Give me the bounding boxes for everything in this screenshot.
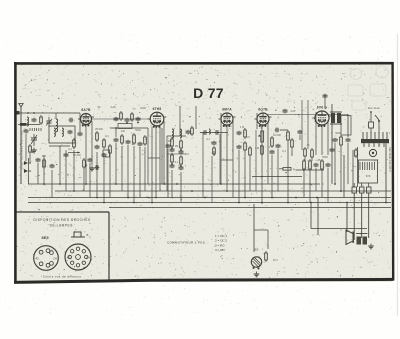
resistor R51 xyxy=(171,153,174,164)
svg-text:4O: 4O xyxy=(35,257,38,261)
resistor R32 xyxy=(83,158,86,169)
wire xyxy=(327,120,329,155)
wire xyxy=(291,149,293,156)
wire xyxy=(347,228,367,230)
wire xyxy=(347,114,349,137)
wire xyxy=(307,100,309,149)
wire link row y132 xyxy=(200,132,228,134)
wire xyxy=(37,163,39,184)
wire xyxy=(370,112,372,116)
svg-text:Exc.Veux: Exc.Veux xyxy=(368,106,380,110)
svg-text:6E5: 6E5 xyxy=(254,248,259,252)
tube V2 6TH8 IF amplifier xyxy=(148,107,167,128)
wire xyxy=(73,150,75,191)
resistor R2 cathode xyxy=(43,158,46,169)
wire xyxy=(315,112,317,155)
capacitor C41 xyxy=(125,118,130,123)
node oh2 xyxy=(287,176,289,178)
resistor R15b xyxy=(304,147,307,158)
capacitor C6b xyxy=(95,165,100,170)
wire xyxy=(309,171,311,203)
wire second h xyxy=(18,124,40,126)
wire xyxy=(79,125,81,127)
capacitor C23 grid xyxy=(323,94,328,99)
wire mains b xyxy=(378,128,380,134)
resistor R4 screen xyxy=(96,131,99,142)
svg-text:5000: 5000 xyxy=(335,132,341,135)
wire xyxy=(155,127,157,198)
wire xyxy=(96,152,98,198)
wire xyxy=(159,127,161,191)
wire xyxy=(315,168,317,191)
node d2 xyxy=(180,149,182,151)
wire bus line 1 xyxy=(28,183,320,185)
capacitor C12a cathode xyxy=(166,144,171,149)
svg-text:6TH8: 6TH8 xyxy=(153,107,162,111)
wire xyxy=(299,135,301,140)
wire heater bus xyxy=(109,207,391,209)
capacitor C55 xyxy=(203,130,208,135)
wire xyxy=(109,155,111,198)
capacitor C3b xyxy=(64,153,69,158)
capacitor C31 xyxy=(36,158,41,163)
node j41 xyxy=(126,122,128,124)
resistor R53 xyxy=(180,155,183,166)
wire xyxy=(151,127,153,203)
resistor R17 xyxy=(340,135,343,147)
resistor R31 xyxy=(355,148,358,158)
tone capacitor box xyxy=(341,116,351,136)
resistor R50 xyxy=(171,137,174,148)
wire xyxy=(59,146,61,184)
svg-text:5000: 5000 xyxy=(135,129,141,132)
capacitor C40 xyxy=(114,117,119,122)
wire xyxy=(85,125,87,184)
svg-text:D 77: D 77 xyxy=(193,85,224,101)
wire col left xyxy=(161,128,163,184)
capacitor C22 xyxy=(346,138,351,143)
svg-text:6V6 G: 6V6 G xyxy=(317,106,328,110)
wire xyxy=(238,150,240,203)
svg-text:120: 120 xyxy=(121,130,126,133)
wire xyxy=(321,171,323,198)
wire osc link xyxy=(62,112,80,114)
coil L2 wave band xyxy=(56,119,58,132)
capacitor C30 xyxy=(24,129,29,134)
resistor R52 xyxy=(180,139,183,150)
wire speaker field xyxy=(346,203,348,233)
svg-text:2000: 2000 xyxy=(140,107,146,110)
wire xyxy=(83,169,85,191)
wire speaker field b xyxy=(310,203,312,229)
svg-text:4-25: 4-25 xyxy=(110,106,116,109)
wire mid h xyxy=(167,135,186,137)
coil L4 xyxy=(62,128,63,136)
wire xyxy=(226,126,228,191)
svg-text:6V6: 6V6 xyxy=(366,175,371,178)
capacitor C12 xyxy=(212,141,217,146)
capacitor C7 padder xyxy=(114,138,119,143)
wire xyxy=(267,121,269,184)
resistor R3 grid leak xyxy=(73,138,76,149)
ground magic eye xyxy=(254,272,260,277)
svg-text:DE LAMPES.: DE LAMPES. xyxy=(50,224,75,228)
capacitor C32 xyxy=(330,148,335,153)
svg-text:25.000: 25.000 xyxy=(95,128,103,131)
coil T1 primary xyxy=(172,129,174,138)
capacitor C4b xyxy=(69,118,74,123)
band switch S1 contacts xyxy=(24,161,31,173)
resistor R8c xyxy=(191,126,194,136)
svg-text:0,5: 0,5 xyxy=(246,136,250,139)
svg-text:· · · · · · · · ·: · · · · · · · · · xyxy=(344,250,359,254)
wire bus line 3 xyxy=(28,197,391,199)
output transformer T3 xyxy=(356,234,368,245)
svg-text:M 1: M 1 xyxy=(273,258,278,262)
wire xyxy=(334,143,336,184)
node oh1 xyxy=(261,176,263,178)
filter choke box xyxy=(359,160,378,183)
wire xyxy=(301,100,303,150)
capacitor C18 coupling xyxy=(275,128,280,133)
resistor R6 xyxy=(121,134,124,145)
resistor R33 xyxy=(291,138,294,149)
variable capacitor CV1 xyxy=(31,134,37,146)
wire xyxy=(89,163,91,198)
wire extra v2 xyxy=(352,150,354,187)
node stub xyxy=(77,152,79,154)
AGC small rect xyxy=(103,150,110,157)
wire xyxy=(311,159,313,161)
svg-text:B: B xyxy=(87,233,89,237)
svg-text:2 = OC 2: 2 = OC 2 xyxy=(215,239,227,243)
ground speaker xyxy=(368,244,374,249)
wire top small xyxy=(115,128,117,137)
wire antenna top xyxy=(16,112,62,114)
oscillator coil box xyxy=(49,126,75,143)
wire xyxy=(232,121,234,198)
resistor R11 xyxy=(261,144,264,156)
wire stub y152 xyxy=(68,152,80,154)
svg-text:5000: 5000 xyxy=(322,156,328,159)
node mains xyxy=(370,111,372,113)
wire mains a xyxy=(370,128,372,134)
svg-text:0,1: 0,1 xyxy=(105,135,109,138)
svg-text:6A7B: 6A7B xyxy=(81,108,91,112)
socket key octal xyxy=(71,232,89,237)
wire xyxy=(29,154,31,163)
wire xyxy=(79,113,81,132)
switch S2 mains xyxy=(375,115,380,128)
electrolytic capacitor CE2 xyxy=(360,183,365,193)
wire xyxy=(55,113,57,119)
svg-text:6E5: 6E5 xyxy=(41,235,49,240)
wire xyxy=(166,136,168,191)
wire xyxy=(340,147,342,191)
speaker LS1 xyxy=(346,230,353,245)
capacitor C33 xyxy=(88,158,93,163)
node d1 xyxy=(171,147,173,149)
capacitor C20 xyxy=(326,163,331,168)
wire xyxy=(49,145,70,147)
wire xyxy=(304,158,306,161)
wire xyxy=(25,134,27,161)
choke winding xyxy=(360,162,374,170)
wire xyxy=(163,121,165,184)
capacitor C14 xyxy=(237,145,242,150)
svg-text:300: 300 xyxy=(42,155,47,158)
wire xyxy=(180,172,182,203)
wire xyxy=(213,151,215,156)
antenna terminal xyxy=(16,104,23,115)
svg-text:DISPOSITION DES BROCHES: DISPOSITION DES BROCHES xyxy=(33,218,90,222)
tube V5 6V6 G output xyxy=(313,106,332,127)
svg-text:4 = GO: 4 = GO xyxy=(215,248,225,252)
capacitor C8 xyxy=(126,140,131,145)
wire mid h2 xyxy=(167,153,186,155)
wire xyxy=(303,171,305,198)
svg-text:50.000: 50.000 xyxy=(73,154,81,157)
capacitor C13 xyxy=(237,131,242,136)
wire xyxy=(133,146,135,203)
capacitor C34 xyxy=(298,130,303,135)
wire bus line 2 xyxy=(55,190,391,192)
wire xyxy=(255,130,257,191)
tube V1 6A7B converter xyxy=(78,108,94,126)
svg-text:1 M: 1 M xyxy=(240,126,244,129)
output coupling cluster xyxy=(330,112,342,124)
wire speaker top link xyxy=(311,228,347,230)
wire xyxy=(353,193,355,240)
svg-text:0,5: 0,5 xyxy=(185,153,189,156)
resistor R7 xyxy=(133,133,136,145)
resistor R14 xyxy=(303,159,306,171)
wire xyxy=(144,147,146,191)
wire extra v1 xyxy=(343,155,345,198)
resistor R13 xyxy=(287,130,290,142)
node antenna junction xyxy=(33,112,35,114)
svg-text:0,1: 0,1 xyxy=(68,148,72,151)
blocking capacitor bar xyxy=(20,123,27,126)
capacitor C53 xyxy=(179,166,184,171)
resistor R12 xyxy=(271,136,274,148)
wire xyxy=(327,168,329,203)
wire plate line xyxy=(268,114,348,116)
wire xyxy=(219,134,221,184)
capacitor C2 padding xyxy=(68,130,73,135)
capacitor C9 xyxy=(138,142,143,147)
capacitor C6 xyxy=(102,153,107,158)
power transformer T2 xyxy=(361,132,389,147)
wire link y119 xyxy=(92,118,150,120)
wire xyxy=(103,158,105,203)
svg-text:1 M: 1 M xyxy=(255,147,259,150)
wire bus line 4 xyxy=(28,202,391,204)
svg-text:0,1: 0,1 xyxy=(282,150,286,153)
svg-text:1 = OC 1: 1 = OC 1 xyxy=(215,234,227,238)
electrolytic capacitor CE3 xyxy=(367,183,372,193)
svg-text:6M7A: 6M7A xyxy=(222,108,232,112)
volume potentiometer P1 xyxy=(258,131,264,142)
node j42 xyxy=(137,122,139,124)
capacitor C19 xyxy=(314,163,319,168)
capacitor C5 screen bypass xyxy=(95,145,100,150)
svg-text:Culots vus de dessous: Culots vus de dessous xyxy=(43,275,82,279)
capacitor C17 xyxy=(270,150,275,155)
node d4 xyxy=(180,165,182,167)
node j40 xyxy=(115,127,117,129)
wire xyxy=(139,147,141,198)
fuse F1 xyxy=(369,116,374,128)
wire xyxy=(287,142,289,203)
wire link h2 xyxy=(221,159,233,161)
wire xyxy=(357,147,359,187)
svg-text:· · · · · · ·: · · · · · · · xyxy=(344,264,355,268)
svg-text:0,1: 0,1 xyxy=(175,161,179,164)
wire xyxy=(220,113,222,184)
svg-text:CH: CH xyxy=(86,256,90,260)
ground V1 cathode xyxy=(89,166,95,171)
wire extra v3 xyxy=(331,104,333,184)
wire xyxy=(256,113,258,129)
coil L1b antenna ticks xyxy=(30,128,41,131)
coil T1 secondary xyxy=(180,129,182,138)
label switch positions xyxy=(215,234,227,252)
capacitor C17b xyxy=(276,144,281,149)
resistor R18 eye grid xyxy=(265,251,268,262)
wire xyxy=(202,133,204,198)
wire xyxy=(121,146,123,191)
resistor R10 xyxy=(244,141,247,152)
resistor R1 xyxy=(40,115,43,125)
svg-text:6Q7B: 6Q7B xyxy=(258,108,268,112)
svg-text:CH: CH xyxy=(53,257,57,261)
capacitor C1 xyxy=(32,118,37,123)
resistor R19 Pu horizontal xyxy=(279,168,291,171)
wire xyxy=(321,126,323,155)
svg-text:3 = PO: 3 = PO xyxy=(215,243,225,247)
capacitor C51 xyxy=(170,164,175,169)
wire xyxy=(20,112,22,114)
resistor R5b xyxy=(109,144,112,155)
resistor R40 xyxy=(120,111,123,121)
tube V3 6M7A IF amplifier xyxy=(219,108,236,127)
wire xyxy=(271,155,273,198)
resistor R7b xyxy=(144,135,147,146)
wire xyxy=(115,143,117,184)
wire xyxy=(65,150,67,191)
wire grid link xyxy=(110,127,148,129)
capacitor C52 xyxy=(179,150,184,155)
node d3 xyxy=(171,163,173,165)
wire drop x318 xyxy=(317,198,319,236)
wire xyxy=(211,156,213,203)
wire xyxy=(280,129,288,131)
rectifier tube V6 xyxy=(369,149,376,156)
wire xyxy=(127,145,129,198)
svg-text:CAP: CAP xyxy=(291,110,296,113)
resistor R30 xyxy=(29,144,32,154)
electrolytic capacitor CE1 xyxy=(352,183,357,193)
node bus junctions xyxy=(43,183,387,203)
wire to magic eye xyxy=(253,204,255,252)
node antenna junction 2 xyxy=(27,112,29,114)
wire T1 top entry 2 xyxy=(195,106,197,129)
tube V7 6E5 magic eye xyxy=(251,257,261,270)
resistor R16 xyxy=(321,159,324,171)
wire grid cap V5 xyxy=(324,94,326,109)
wire right edge drop xyxy=(385,143,387,202)
ground antenna section xyxy=(31,148,37,153)
wire xyxy=(43,155,45,184)
coil L3 xyxy=(54,128,55,136)
wire antenna lead xyxy=(20,113,22,184)
wire xyxy=(277,149,279,191)
resistor R9 xyxy=(244,128,247,139)
wire xyxy=(171,170,173,198)
capacitor C50 xyxy=(170,148,175,153)
capacitor C21 tone xyxy=(333,138,338,143)
capacitor C3 bypass xyxy=(50,164,55,169)
resistor R5 osc xyxy=(103,138,106,149)
trimmer capacitor CT1 xyxy=(46,117,52,127)
wire xyxy=(51,170,53,198)
capacitor C4 grid xyxy=(78,132,83,137)
wire output h line xyxy=(252,176,302,178)
wire eye branch drop xyxy=(267,230,269,249)
wire xyxy=(91,121,93,165)
wire switch drop xyxy=(28,158,30,184)
wire T1 top entry xyxy=(179,106,181,136)
coil L5 xyxy=(209,129,210,134)
wire xyxy=(261,126,263,204)
capacitor C42 xyxy=(136,117,141,122)
svg-text:10.000: 10.000 xyxy=(273,134,281,137)
tube socket diagram box xyxy=(17,212,110,281)
capacitor C56 xyxy=(215,130,220,135)
wire link h3 xyxy=(148,157,160,159)
tube socket 6-pin xyxy=(34,246,59,271)
resistor R15 xyxy=(309,159,312,171)
oscillator trimmer block xyxy=(118,124,132,129)
wire xyxy=(167,149,169,198)
wire xyxy=(147,128,149,184)
coil L1 antenna primary xyxy=(27,117,29,126)
svg-text:4O: 4O xyxy=(67,256,70,260)
wire xyxy=(244,152,246,198)
svg-text:1M: 1M xyxy=(175,145,178,148)
capacitor C15 AVC xyxy=(283,109,288,114)
svg-text:· · · · · · · ·: · · · · · · · · xyxy=(344,257,357,261)
svg-text:0,1: 0,1 xyxy=(206,138,210,141)
wire eye branch xyxy=(254,229,268,231)
resistor R15c xyxy=(311,148,314,159)
capacitor C10 trim xyxy=(186,130,191,135)
wire xyxy=(361,193,363,238)
wire xyxy=(249,157,251,191)
tube socket 8-pin octal xyxy=(65,244,91,270)
wire xyxy=(368,193,370,238)
svg-text:COMMUTATEUR 2 POS.: COMMUTATEUR 2 POS. xyxy=(167,241,206,245)
wire link h1 xyxy=(296,169,324,171)
label disposition heading xyxy=(33,218,90,228)
tube V4 6Q7B detector xyxy=(255,108,272,127)
resistor R41 xyxy=(131,112,134,122)
resistor R8 xyxy=(213,146,216,156)
resistor R10b xyxy=(249,146,252,157)
wire xyxy=(347,143,349,184)
